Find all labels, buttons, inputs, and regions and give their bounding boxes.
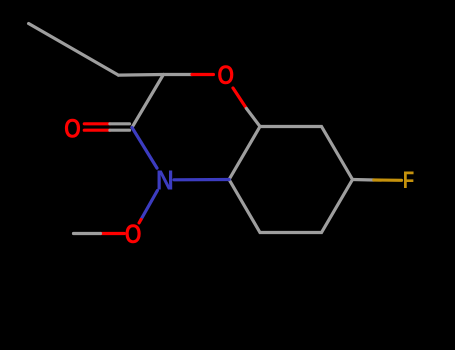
svg-text:O: O: [64, 114, 81, 144]
svg-text:N: N: [156, 164, 174, 195]
svg-text:F: F: [403, 167, 415, 194]
svg-text:O: O: [125, 219, 142, 249]
svg-text:O: O: [217, 60, 234, 90]
